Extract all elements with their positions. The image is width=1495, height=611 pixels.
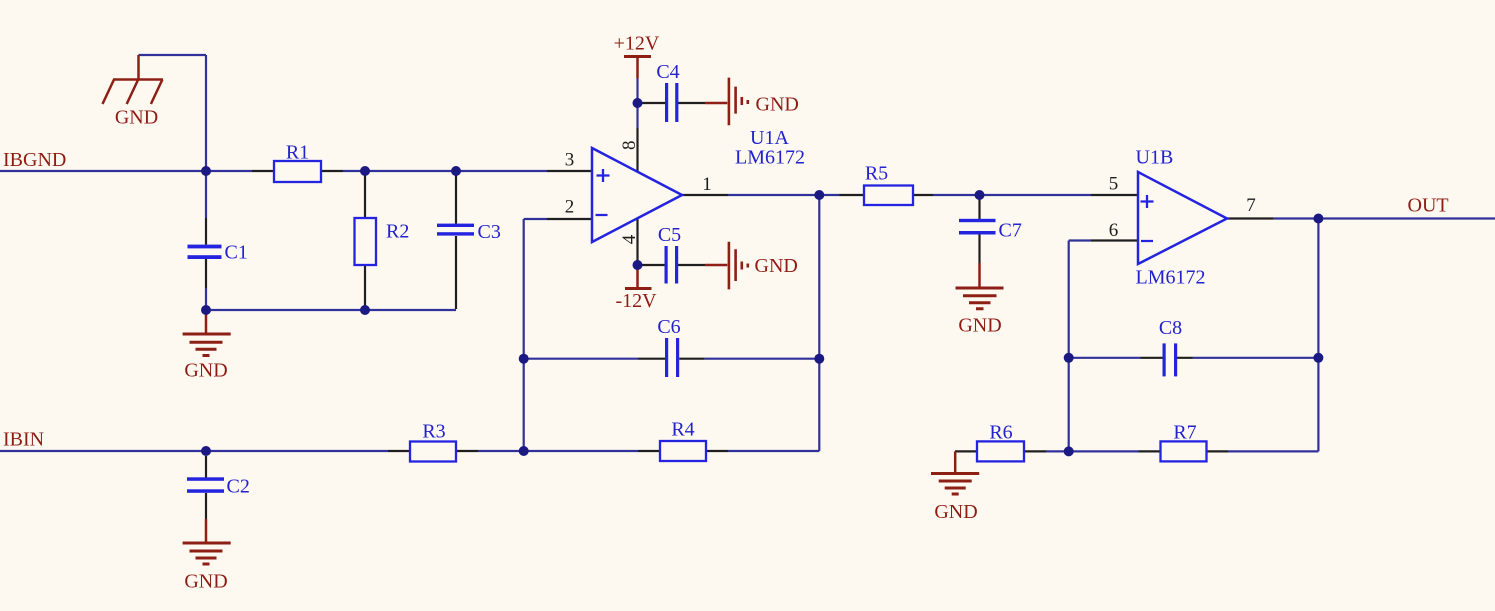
svg-text:R3: R3 <box>422 421 445 443</box>
svg-text:R4: R4 <box>671 419 694 441</box>
svg-text:C2: C2 <box>227 476 250 498</box>
svg-text:IBIN: IBIN <box>3 429 44 451</box>
svg-text:GND: GND <box>756 94 799 116</box>
svg-text:-12V: -12V <box>615 290 657 312</box>
svg-text:C6: C6 <box>657 316 680 338</box>
svg-text:R2: R2 <box>386 221 409 243</box>
svg-text:C1: C1 <box>225 242 248 264</box>
svg-text:GND: GND <box>115 107 158 129</box>
svg-text:LM6172: LM6172 <box>1136 267 1206 289</box>
svg-text:R7: R7 <box>1173 422 1196 444</box>
svg-text:IBGND: IBGND <box>3 149 66 171</box>
svg-text:R5: R5 <box>865 163 888 185</box>
svg-text:5: 5 <box>1109 174 1119 195</box>
svg-text:R1: R1 <box>286 142 309 164</box>
svg-text:2: 2 <box>565 197 575 218</box>
svg-text:GND: GND <box>755 255 798 277</box>
svg-text:8: 8 <box>619 141 640 151</box>
svg-text:6: 6 <box>1109 220 1119 241</box>
svg-text:OUT: OUT <box>1408 195 1449 217</box>
svg-text:GND: GND <box>934 501 977 523</box>
svg-text:+12V: +12V <box>614 33 660 55</box>
svg-text:C7: C7 <box>999 220 1022 242</box>
svg-text:4: 4 <box>619 234 640 244</box>
svg-text:GND: GND <box>958 315 1001 337</box>
svg-text:LM6172: LM6172 <box>735 147 805 169</box>
svg-text:U1B: U1B <box>1136 147 1174 169</box>
svg-text:GND: GND <box>184 360 227 382</box>
svg-text:GND: GND <box>184 571 227 593</box>
svg-text:3: 3 <box>565 150 575 171</box>
svg-text:C3: C3 <box>478 221 501 243</box>
svg-text:C8: C8 <box>1159 317 1182 339</box>
svg-text:C5: C5 <box>658 224 681 246</box>
svg-text:1: 1 <box>702 174 712 195</box>
svg-text:7: 7 <box>1246 195 1256 216</box>
svg-text:C4: C4 <box>656 61 679 83</box>
svg-text:R6: R6 <box>989 422 1012 444</box>
